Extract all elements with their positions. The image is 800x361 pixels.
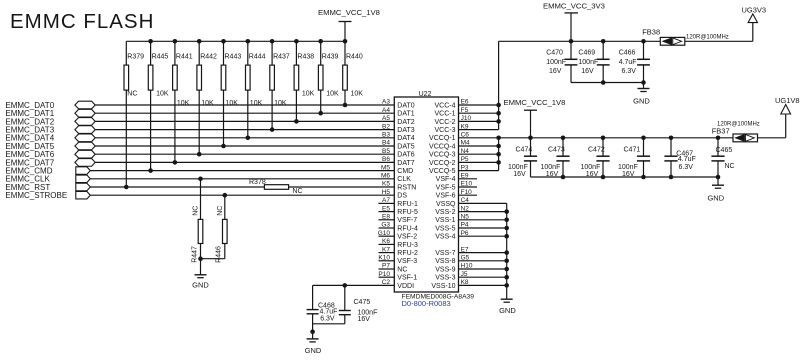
svg-text:NC: NC <box>725 163 735 170</box>
U22 left pin C2 VDDI <box>382 279 414 290</box>
junction C471 bottom <box>641 175 646 180</box>
junction VCCQ bus row N4 <box>496 152 501 157</box>
svg-text:C469: C469 <box>578 50 595 57</box>
svg-text:C474: C474 <box>516 147 533 154</box>
svg-text:M5: M5 <box>381 164 390 171</box>
svg-text:VDDI: VDDI <box>397 283 414 290</box>
svg-text:C466: C466 <box>619 50 636 57</box>
ground below VSS bus <box>499 299 516 315</box>
capacitor C475 100nF 16V <box>313 285 378 323</box>
svg-text:4.7uF: 4.7uF <box>678 156 696 163</box>
svg-text:P4: P4 <box>461 222 469 229</box>
junction R437 top on rail <box>270 39 275 44</box>
svg-text:R379: R379 <box>127 53 144 60</box>
svg-text:B3: B3 <box>382 132 390 139</box>
svg-text:H5: H5 <box>382 189 391 196</box>
U22 left pin A3 DAT0 <box>382 99 415 110</box>
svg-text:DAT6: DAT6 <box>397 152 414 159</box>
resistor R439 10K <box>318 41 339 113</box>
svg-text:P7: P7 <box>382 263 390 270</box>
svg-text:DAT5: DAT5 <box>397 143 414 150</box>
U22 left pin M6 CLK <box>381 173 411 184</box>
wire 1V8 capacitor ground rail <box>531 176 719 178</box>
junction C474 top on 1V8 rail <box>528 136 533 141</box>
svg-text:C470: C470 <box>546 50 563 57</box>
junction VCC bus row F5 <box>496 111 501 116</box>
svg-text:E10: E10 <box>461 181 473 188</box>
junction C473 bottom <box>561 175 566 180</box>
U22 right pin E7 VSS-7 <box>435 246 506 257</box>
svg-text:E9: E9 <box>461 173 469 180</box>
svg-text:M6: M6 <box>381 173 390 180</box>
resistor R379 NC <box>124 41 144 187</box>
wire EMMC_DAT7 <box>95 161 394 163</box>
U22 left pin B5 DAT6 <box>382 148 415 159</box>
svg-text:R443: R443 <box>225 53 242 60</box>
off-page connector EMMC_DAT5 <box>75 142 95 150</box>
ferrite bead FB37 120R@100MHz <box>712 122 760 142</box>
off-page connector EMMC_STROBE <box>76 191 91 199</box>
junction C472 bottom <box>601 175 606 180</box>
junction R379 bottom on signal wire <box>124 185 129 190</box>
junction R442 top on rail <box>197 39 202 44</box>
net label EMMC_CLK <box>5 175 50 184</box>
svg-text:DAT4: DAT4 <box>397 135 414 142</box>
capacitor C468 4.7uF 6.3V <box>307 285 338 338</box>
svg-text:VCCQ-4: VCCQ-4 <box>429 143 456 150</box>
junction VCC bus row E6 <box>496 103 501 108</box>
wire EMMC_VCC_1V8 rail (VCCQ-1 C6) <box>459 137 734 139</box>
svg-text:6.3V: 6.3V <box>622 68 637 75</box>
off-page connector EMMC_DAT6 <box>75 150 95 158</box>
svg-text:R438: R438 <box>297 53 314 60</box>
junction VSS bus row P6 <box>504 234 509 239</box>
net label EMMC_DAT1 <box>5 109 54 118</box>
junction C467 top on 1V8 rail <box>669 136 674 141</box>
svg-text:A5: A5 <box>382 115 390 122</box>
svg-text:GND: GND <box>305 346 322 355</box>
wire 3V3 capacitor ground rail <box>571 82 644 84</box>
svg-text:DAT3: DAT3 <box>397 127 414 134</box>
U22 left pin K10 VSF-3 <box>378 255 417 266</box>
U22 right pin P5 VCCQ-2 <box>429 156 499 167</box>
svg-text:G5: G5 <box>461 255 470 262</box>
resistor R437 10K <box>270 41 290 129</box>
junction R440 top on rail <box>343 39 348 44</box>
U22 right pin H10 VSS-9 <box>435 263 506 274</box>
power symbol EMMC_VCC_1V8 (VCCQ rail) <box>504 98 566 138</box>
U22 right pin P3 VCCQ-5 <box>429 164 499 175</box>
wire EMMC_DAT5 <box>95 145 394 147</box>
svg-text:P6: P6 <box>461 230 469 237</box>
junction R441 bottom on signal wire <box>173 160 178 165</box>
svg-text:R442: R442 <box>200 53 217 60</box>
wire EMMC_DAT4 <box>95 137 394 139</box>
wire FB37 to UG1V8 <box>758 114 786 138</box>
svg-text:RFU-5: RFU-5 <box>397 209 418 216</box>
svg-text:E5: E5 <box>382 205 390 212</box>
off-page connector EMMC_DAT7 <box>75 159 95 167</box>
svg-text:R439: R439 <box>322 53 339 60</box>
off-page connector EMMC_CMD <box>76 167 91 175</box>
svg-text:VSS-8: VSS-8 <box>435 258 455 265</box>
U22 left pin A7 RFU-1 <box>379 197 419 208</box>
svg-text:R440: R440 <box>346 53 363 60</box>
junction C466 bottom <box>641 80 646 85</box>
ferrite bead FB38 120R@100MHz <box>642 27 729 45</box>
svg-text:C471: C471 <box>624 147 641 154</box>
ground below R447 <box>192 259 209 290</box>
svg-text:VSS-5: VSS-5 <box>435 225 455 232</box>
svg-text:100nF: 100nF <box>546 59 566 66</box>
svg-text:C475: C475 <box>354 299 371 306</box>
svg-text:DAT2: DAT2 <box>397 119 414 126</box>
U22 left pin P10 VSF-1 <box>378 271 417 282</box>
svg-text:10K: 10K <box>326 90 339 97</box>
svg-text:VSSQ: VSSQ <box>436 201 456 208</box>
junction C465 bottom <box>716 175 721 180</box>
junction C465 top on 1V8 rail <box>716 136 721 141</box>
U22 right pin N5 VSS-1 <box>435 214 506 225</box>
junction R437 bottom on signal wire <box>270 127 275 132</box>
resistor R444 10K <box>246 41 266 138</box>
wire VSS bus to ground <box>506 203 508 299</box>
svg-text:CLK: CLK <box>397 176 411 183</box>
svg-text:R446: R446 <box>216 246 223 263</box>
wire FB38 to UG3V3 <box>685 23 753 42</box>
U22 left pin G3 RFU-4 <box>379 222 419 233</box>
svg-text:GND: GND <box>192 280 209 289</box>
junction R444 bottom on signal wire <box>246 136 251 141</box>
svg-text:10K: 10K <box>177 100 190 107</box>
junction C475 top on VDDI wire <box>343 283 348 288</box>
svg-text:EMMC FLASH: EMMC FLASH <box>10 10 154 33</box>
svg-text:F10: F10 <box>461 189 473 196</box>
svg-text:R445: R445 <box>152 53 169 60</box>
U22 left pin P7 NC <box>379 263 408 274</box>
junction R443 top on rail <box>221 39 226 44</box>
resistor R438 10K <box>294 41 315 121</box>
svg-text:C472: C472 <box>588 147 605 154</box>
svg-text:RSTN: RSTN <box>397 184 416 191</box>
junction C468/C475 ground node <box>310 329 315 334</box>
U22 left pin B3 DAT4 <box>382 132 415 143</box>
junction VCCQ bus on 1V8 rail <box>496 136 501 141</box>
junction R445 top on rail <box>148 39 153 44</box>
U22 left pin K6 RFU-3 <box>379 238 419 249</box>
svg-text:RFU-1: RFU-1 <box>397 201 418 208</box>
IC U22 part number labels <box>402 294 475 308</box>
svg-text:U22: U22 <box>419 91 432 98</box>
svg-text:K10: K10 <box>378 255 390 262</box>
svg-text:6.3V: 6.3V <box>679 164 694 171</box>
wire VCC bus to EMMC_VCC_3V3 rail <box>498 41 500 129</box>
svg-text:GND: GND <box>707 193 724 202</box>
U22 left pin A4 DAT1 <box>382 107 415 118</box>
svg-text:N2: N2 <box>461 205 470 212</box>
svg-text:B5: B5 <box>382 148 390 155</box>
junction C469 bottom <box>601 80 606 85</box>
wire EMMC_VCC_3V3 rail <box>499 40 661 42</box>
junction C470 top on 3V3 rail <box>569 39 574 44</box>
svg-text:E7: E7 <box>461 246 469 253</box>
junction VCC bus row J10 <box>496 119 501 124</box>
svg-text:CMD: CMD <box>397 168 413 175</box>
svg-text:16V: 16V <box>358 316 371 323</box>
capacitor C469 100nF 16V <box>578 41 609 82</box>
svg-text:RFU-3: RFU-3 <box>397 242 418 249</box>
svg-text:VSS-3: VSS-3 <box>435 275 455 282</box>
svg-text:10K: 10K <box>274 100 287 107</box>
svg-text:R441: R441 <box>176 53 193 60</box>
resistor R447 NC (on EMMC_CLK) <box>191 179 202 263</box>
U22 left pin G10 VSF-2 <box>378 230 418 241</box>
svg-text:UG1V8: UG1V8 <box>775 96 800 105</box>
svg-text:C4: C4 <box>461 197 470 204</box>
wire EMMC_CLK <box>90 178 394 180</box>
U22 right pin E6 VCC-4 <box>434 99 498 110</box>
ground below C468 <box>305 339 322 355</box>
svg-text:RFU-2: RFU-2 <box>397 250 418 257</box>
svg-text:FB37: FB37 <box>712 127 730 136</box>
net label EMMC_DAT3 <box>5 126 54 135</box>
U22 left pin A5 DAT2 <box>382 115 415 126</box>
svg-text:16V: 16V <box>581 68 594 75</box>
svg-text:E8: E8 <box>382 214 390 221</box>
net label EMMC_DAT7 <box>5 158 54 167</box>
U22 right pin F10 VSF-6 <box>436 189 477 200</box>
power symbol EMMC_VCC_1V8 (pull-up rail) <box>318 8 380 41</box>
junction R444 top on rail <box>246 39 251 44</box>
svg-text:120R@100MHz: 120R@100MHz <box>717 122 760 128</box>
resistor R378 NC (series in EMMC_RST) <box>249 179 303 195</box>
junction R439 top on rail <box>318 39 323 44</box>
ground below C465 <box>707 177 724 202</box>
svg-text:G3: G3 <box>381 222 390 229</box>
capacitor C471 100nF 16V <box>618 138 650 178</box>
power symbol UG1V8 <box>775 96 800 114</box>
U22 left pin B4 DAT5 <box>382 140 415 151</box>
svg-text:P5: P5 <box>461 156 469 163</box>
svg-text:RFU-4: RFU-4 <box>397 225 418 232</box>
U22 right pin K8 VSS-10 <box>431 279 506 290</box>
svg-text:VSS-7: VSS-7 <box>435 250 455 257</box>
U22 right pin P4 VSS-5 <box>435 222 506 233</box>
U22 right pin E10 VSF-5 <box>436 181 477 192</box>
svg-text:VSS-1: VSS-1 <box>435 217 455 224</box>
junction R445 bottom on signal wire <box>148 168 153 173</box>
svg-text:VSF-5: VSF-5 <box>436 184 456 191</box>
resistor R443 10K <box>221 41 241 146</box>
svg-text:VCC-2: VCC-2 <box>434 119 455 126</box>
svg-text:B6: B6 <box>382 156 390 163</box>
svg-text:R444: R444 <box>249 53 266 60</box>
off-page connector EMMC_RST <box>76 183 91 191</box>
U22 left pin K7 RFU-2 <box>379 246 419 257</box>
svg-text:NC: NC <box>127 90 137 97</box>
svg-text:K8: K8 <box>461 279 469 286</box>
svg-text:10K: 10K <box>302 90 315 97</box>
resistor R445 10K <box>148 41 169 170</box>
resistor R441 10K <box>173 41 193 162</box>
junction VSS bus row P4 <box>504 226 509 231</box>
svg-text:H10: H10 <box>461 263 473 270</box>
U22 right pin E9 VSF-4 <box>436 173 477 184</box>
svg-text:K5: K5 <box>382 181 390 188</box>
svg-text:10K: 10K <box>351 90 364 97</box>
U22 left pin B2 DAT3 <box>382 123 415 134</box>
svg-text:DAT0: DAT0 <box>397 102 414 109</box>
svg-text:C465: C465 <box>716 147 733 154</box>
junction C473 top on 1V8 rail <box>561 136 566 141</box>
svg-text:D0-800-R0083: D0-800-R0083 <box>402 299 451 308</box>
U22 right pin M4 VCCQ-4 <box>429 140 499 151</box>
svg-text:A7: A7 <box>382 197 390 204</box>
wire EMMC_STROBE <box>90 194 394 196</box>
svg-text:VCC-3: VCC-3 <box>434 127 455 134</box>
net label EMMC_STROBE <box>5 191 67 200</box>
U22 left pin H5 DS <box>382 189 408 200</box>
svg-text:16V: 16V <box>549 68 562 75</box>
off-page connector EMMC_DAT4 <box>75 134 95 142</box>
svg-text:10K: 10K <box>156 90 169 97</box>
junction R438 top on rail <box>294 39 299 44</box>
wire VCCQ bus <box>498 138 500 171</box>
svg-text:FB38: FB38 <box>642 27 660 36</box>
junction VSS bus row E7 <box>504 250 509 255</box>
svg-text:EMMC_VCC_1V8: EMMC_VCC_1V8 <box>504 98 566 107</box>
U22 left pin B6 DAT7 <box>382 156 415 167</box>
U22 right pin F5 VCC-1 <box>434 107 498 118</box>
junction R446 top on EMMC_STROBE <box>223 193 228 198</box>
wire R446 bottom to R447 bottom <box>201 258 225 260</box>
wire EMMC_DAT6 <box>95 153 394 155</box>
junction R447 top on EMMC_CLK <box>198 177 203 182</box>
svg-text:10K: 10K <box>201 100 214 107</box>
net label EMMC_CMD <box>5 167 52 176</box>
svg-text:EMMC_VCC_3V3: EMMC_VCC_3V3 <box>543 2 605 11</box>
svg-text:VSF-2: VSF-2 <box>397 234 417 241</box>
svg-text:N5: N5 <box>461 214 470 221</box>
svg-text:B4: B4 <box>382 140 390 147</box>
svg-text:P3: P3 <box>461 164 469 171</box>
svg-text:K6: K6 <box>382 238 390 245</box>
wire EMMC_CMD <box>90 170 394 172</box>
junction R447/R446 bottoms <box>198 256 203 261</box>
svg-text:VSF-3: VSF-3 <box>397 258 417 265</box>
svg-text:100nF: 100nF <box>578 59 598 66</box>
svg-text:VSF-6: VSF-6 <box>436 193 456 200</box>
svg-text:DAT1: DAT1 <box>397 111 414 118</box>
junction VSS bus row G5 <box>504 259 509 264</box>
svg-text:NC: NC <box>397 266 407 273</box>
svg-text:A4: A4 <box>382 107 390 114</box>
svg-text:EMMC_STROBE: EMMC_STROBE <box>5 191 67 200</box>
IC U22 body <box>394 91 458 292</box>
junction C466 top on 3V3 rail <box>641 39 646 44</box>
svg-text:VSS-10: VSS-10 <box>431 283 455 290</box>
U22 right pin J10 VCC-2 <box>434 115 498 126</box>
svg-text:NC: NC <box>292 188 302 195</box>
svg-text:N4: N4 <box>461 148 470 155</box>
U22 right pin G5 VSS-8 <box>435 255 506 266</box>
junction R440 bottom on signal wire <box>343 103 348 108</box>
svg-text:K7: K7 <box>382 246 390 253</box>
svg-text:4.7uF: 4.7uF <box>619 59 637 66</box>
junction VSS bus row H10 <box>504 267 509 272</box>
svg-text:DS: DS <box>397 193 407 200</box>
off-page connector EMMC_DAT0 <box>75 101 95 109</box>
junction R441 top on rail <box>173 39 178 44</box>
junction C471 top on 1V8 rail <box>641 136 646 141</box>
junction C467 bottom <box>669 175 674 180</box>
svg-text:VSF-7: VSF-7 <box>397 217 417 224</box>
net label EMMC_DAT5 <box>5 142 54 151</box>
resistor R442 10K <box>197 41 217 154</box>
svg-text:GND: GND <box>633 96 650 105</box>
capacitor C466 4.7uF 6.3V <box>619 41 650 82</box>
capacitor C473 100nF 16V <box>541 138 570 178</box>
svg-text:VCCQ-3: VCCQ-3 <box>429 152 456 159</box>
svg-text:J10: J10 <box>461 115 472 122</box>
resistor R446 NC (on EMMC_STROBE) <box>216 195 227 263</box>
U22 right pin C4 VSSQ <box>436 197 507 208</box>
svg-text:DAT7: DAT7 <box>397 160 414 167</box>
U22 right pin N4 VCCQ-3 <box>429 148 499 159</box>
junction VSS bus row N2 <box>504 209 509 214</box>
junction VSS bus row N5 <box>504 218 509 223</box>
U22 right pin C6 VCCQ-1 <box>429 132 469 143</box>
ground below C466 <box>633 83 650 106</box>
svg-text:P10: P10 <box>378 271 390 278</box>
junction VCCQ bus row M4 <box>496 144 501 149</box>
U22 right pin P6 VSS-4 <box>435 230 506 241</box>
junction R439 bottom on signal wire <box>318 111 323 116</box>
svg-text:VCCQ-5: VCCQ-5 <box>429 168 456 175</box>
U22 left pin E8 VSF-7 <box>379 214 418 225</box>
junction R443 bottom on signal wire <box>221 144 226 149</box>
svg-text:NC: NC <box>193 206 200 216</box>
U22 right pin J5 VSS-3 <box>435 271 506 282</box>
svg-text:6.3V: 6.3V <box>320 315 335 322</box>
svg-text:VCC-1: VCC-1 <box>434 111 455 118</box>
title text EMMC FLASH <box>10 10 154 33</box>
junction R438 bottom on signal wire <box>294 119 299 124</box>
power symbol UG3V3 <box>742 5 767 22</box>
svg-text:J5: J5 <box>461 271 468 278</box>
svg-text:E6: E6 <box>461 99 469 106</box>
svg-text:16V: 16V <box>513 171 526 178</box>
wire U22 VDDI (C2) to decoupling caps <box>313 284 395 286</box>
svg-text:VSF-4: VSF-4 <box>436 176 456 183</box>
wire EMMC_DAT2 <box>95 120 394 122</box>
svg-text:M4: M4 <box>461 140 470 147</box>
U22 right pin K9 VCC-3 <box>434 123 498 134</box>
U22 left pin E5 RFU-5 <box>379 205 419 216</box>
junction R442 bottom on signal wire <box>197 152 202 157</box>
capacitor C465 NC <box>711 138 734 177</box>
svg-text:GND: GND <box>499 306 516 315</box>
svg-text:VSS-4: VSS-4 <box>435 234 455 241</box>
junction C469 top on 3V3 rail <box>601 39 606 44</box>
svg-text:B2: B2 <box>382 123 390 130</box>
off-page connector EMMC_DAT3 <box>75 126 95 134</box>
wire EMMC_DAT1 <box>95 112 394 114</box>
capacitor C474 100nF 16V <box>508 138 537 178</box>
svg-text:VCC-4: VCC-4 <box>434 102 455 109</box>
wire EMMC_RST <box>90 186 394 188</box>
resistor R440 10K <box>343 41 364 105</box>
